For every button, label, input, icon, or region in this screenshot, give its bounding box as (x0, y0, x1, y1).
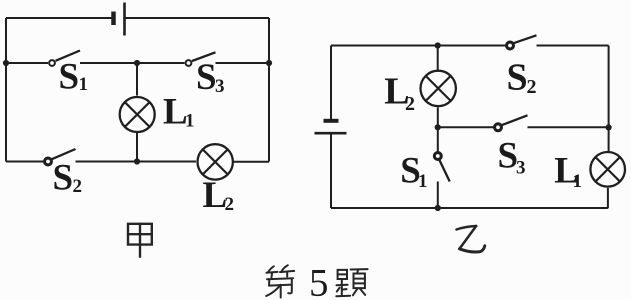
svg-text:S: S (498, 136, 519, 177)
svg-text:L: L (163, 92, 188, 133)
svg-text:S: S (59, 57, 80, 98)
svg-text:L: L (203, 175, 228, 216)
svg-text:2: 2 (527, 76, 537, 98)
svg-text:2: 2 (73, 176, 83, 197)
svg-text:2: 2 (405, 93, 415, 115)
svg-text:3: 3 (516, 158, 526, 179)
svg-text:1: 1 (185, 111, 195, 132)
svg-text:S: S (507, 57, 528, 99)
svg-text:1: 1 (418, 171, 428, 192)
svg-text:S: S (53, 158, 74, 199)
svg-text:5: 5 (309, 262, 329, 300)
svg-text:2: 2 (225, 194, 235, 215)
svg-text:1: 1 (573, 171, 583, 192)
svg-text:1: 1 (79, 74, 89, 95)
svg-text:3: 3 (215, 76, 225, 97)
svg-text:S: S (196, 57, 217, 98)
